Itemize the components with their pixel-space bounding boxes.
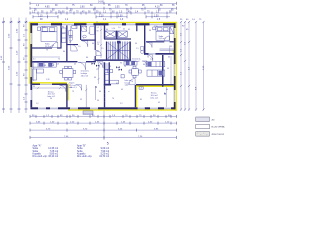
window: bottom wall w16 bbox=[164, 107, 171, 109]
svg-text:70: 70 bbox=[131, 81, 133, 83]
yellow wall highlight: left terrace top bbox=[31, 82, 67, 83]
window: right wall w10 bbox=[174, 28, 176, 38]
svg-text:90: 90 bbox=[70, 87, 72, 89]
bath1 fixtures (sink+toilet) bbox=[69, 31, 73, 42]
svg-text:k: k bbox=[83, 38, 84, 40]
svg-text:75: 75 bbox=[97, 44, 99, 46]
svg-text:75: 75 bbox=[95, 87, 97, 89]
door arc bath1 bbox=[71, 45, 78, 52]
window: left wall w7 bbox=[30, 33, 32, 44]
svg-text:90: 90 bbox=[149, 30, 151, 32]
scattered small annotations bbox=[33, 26, 172, 105]
wardrobe TR room bbox=[170, 27, 174, 34]
svg-text:1,10: 1,10 bbox=[99, 15, 104, 17]
interior wall: right terrace left (v8) bbox=[135, 85, 136, 107]
svg-text:45: 45 bbox=[74, 64, 76, 66]
interior wall: closet divider stub bbox=[116, 31, 118, 39]
interior wall: h4 TL bedroom bottom bbox=[30, 47, 52, 48]
window: right wall w12 bbox=[174, 90, 176, 102]
left dimension numbers bbox=[1, 24, 26, 100]
interior wall: left terrace top (h8) bbox=[30, 84, 67, 86]
svg-text:60: 60 bbox=[106, 29, 108, 31]
window: top wall w6 bbox=[150, 23, 164, 25]
svg-text:45: 45 bbox=[123, 29, 125, 31]
interior wall: bath divider (v3) bbox=[80, 25, 81, 40]
interior wall: h3 bath small bbox=[66, 44, 78, 45]
svg-text:Kupatilo: Kupatilo bbox=[33, 152, 42, 155]
porch door arc 1 bbox=[76, 85, 82, 91]
yellow wall highlight: right terrace left side bbox=[136, 87, 137, 109]
sofa left apt bbox=[33, 69, 44, 80]
bath2 fixtures (tub+shower) bbox=[82, 26, 95, 38]
yellow wall highlight: top bbox=[29, 22, 177, 24]
svg-text:80: 80 bbox=[63, 51, 65, 53]
svg-text:75: 75 bbox=[109, 66, 111, 68]
door arc left terrace bbox=[60, 85, 67, 92]
svg-text:3,1: 3,1 bbox=[33, 59, 36, 61]
svg-text:1,8: 1,8 bbox=[62, 33, 65, 35]
right dimension ticks bbox=[180, 21, 205, 111]
svg-text:60: 60 bbox=[143, 64, 145, 66]
bottom dimension ticks bbox=[30, 115, 176, 139]
svg-text:1,40: 1,40 bbox=[125, 85, 129, 87]
svg-text:3,60: 3,60 bbox=[80, 7, 85, 9]
window: top wall w1 bbox=[38, 23, 51, 25]
svg-text:1,50: 1,50 bbox=[154, 15, 159, 17]
left dimension ticks bbox=[2, 21, 28, 109]
svg-text:75: 75 bbox=[75, 27, 77, 29]
yellow wall highlight: right bbox=[175, 22, 176, 111]
entry steps below porch bbox=[83, 111, 93, 114]
interior dim line bath vertical bbox=[31, 21, 171, 89]
section marks right (bowties) bbox=[116, 66, 122, 71]
svg-text:k: k bbox=[164, 93, 165, 95]
outer wall: right bbox=[174, 23, 176, 109]
AC unit right terrace bbox=[139, 87, 143, 90]
interior wall: TL bedroom right (v1) bbox=[60, 25, 61, 47]
svg-text:Dnv.+kuh.+trp.: Dnv.+kuh.+trp. bbox=[77, 155, 92, 158]
interior wall: corridor stub x136 bbox=[136, 25, 137, 31]
svg-text:Apar "B": Apar "B" bbox=[77, 145, 86, 148]
window: top wall w4 bbox=[109, 23, 123, 25]
top dimension lines bbox=[30, 3, 176, 16]
door arc TR bedroom bbox=[164, 36, 169, 41]
svg-text:2,05: 2,05 bbox=[42, 27, 46, 29]
wardrobe closet X boxes bbox=[105, 31, 127, 37]
dim square mark right terrace bbox=[164, 93, 166, 94]
door arc left living bbox=[78, 62, 86, 70]
interior wall: h6a stair bottom bbox=[96, 59, 131, 61]
room label left terrace bbox=[48, 91, 57, 98]
interior wall: h6b right corridor south bbox=[144, 53, 176, 55]
svg-text:60: 60 bbox=[97, 51, 99, 53]
yellow wall highlight: left bbox=[29, 22, 30, 84]
door: bottom wall right terrace bbox=[138, 107, 145, 109]
svg-text:4,10: 4,10 bbox=[155, 7, 160, 9]
svg-text:36,10 m2: 36,10 m2 bbox=[48, 156, 58, 158]
interior wall: h7 left living north bbox=[32, 61, 77, 62]
left dimension lines bbox=[4, 18, 27, 114]
bottom dimension numbers bbox=[32, 115, 171, 138]
door arc right terrace bbox=[129, 79, 135, 85]
svg-text:75: 75 bbox=[88, 33, 90, 35]
interior wall: corridor right apt (v9) bbox=[144, 25, 145, 54]
svg-text:60: 60 bbox=[166, 89, 168, 91]
stair direction arrow diagonal bbox=[108, 43, 129, 59]
right dimension numbers bbox=[181, 32, 206, 90]
svg-text:55: 55 bbox=[167, 68, 169, 70]
outer wall: bottom bbox=[30, 107, 175, 109]
svg-text:60: 60 bbox=[168, 57, 170, 59]
svg-text:90: 90 bbox=[50, 98, 52, 100]
dining table right apt bbox=[129, 66, 141, 78]
svg-text:75: 75 bbox=[147, 57, 149, 59]
svg-text:75: 75 bbox=[124, 66, 126, 68]
window: left wall w9 bbox=[30, 90, 32, 100]
svg-text:3,55: 3,55 bbox=[115, 7, 120, 9]
svg-text:85: 85 bbox=[100, 64, 102, 66]
svg-text:75: 75 bbox=[46, 50, 48, 52]
svg-text:1,10: 1,10 bbox=[112, 28, 116, 30]
door: bottom wall porch d2 bbox=[90, 107, 98, 109]
svg-text:60: 60 bbox=[44, 65, 46, 67]
svg-text:kuh: kuh bbox=[56, 64, 59, 66]
svg-text:2,1: 2,1 bbox=[101, 48, 104, 50]
svg-text:45: 45 bbox=[158, 102, 160, 104]
svg-text:ZIDNI TOKOVI: ZIDNI TOKOVI bbox=[212, 134, 225, 136]
svg-text:kota -0,1: kota -0,1 bbox=[151, 97, 160, 100]
svg-text:34,70 m2: 34,70 m2 bbox=[99, 156, 109, 158]
top dimension numbers bbox=[32, 2, 175, 21]
lower stair treads bbox=[105, 64, 108, 70]
bed TR bbox=[153, 27, 170, 40]
bottom dimension lines bbox=[30, 110, 176, 140]
svg-text:90: 90 bbox=[97, 31, 99, 33]
interior dim line right room bbox=[166, 46, 170, 108]
door arc right corridor bbox=[147, 55, 153, 61]
svg-text:60: 60 bbox=[94, 77, 96, 79]
bed TL bbox=[37, 26, 77, 43]
interior wall: h1 under closets bbox=[104, 38, 131, 39]
room label right terrace bbox=[151, 93, 160, 100]
door arc bath2 bbox=[82, 41, 88, 47]
bottom area summary table 1 bbox=[33, 145, 59, 158]
stairwell wall hatch bbox=[104, 85, 105, 102]
right dimension lines bbox=[181, 22, 204, 111]
svg-text:90: 90 bbox=[62, 27, 64, 29]
bath3 right apt fixtures bbox=[141, 47, 174, 54]
interior wall: v5 upper closet room left bbox=[104, 25, 105, 39]
kitchen counters right apt bbox=[146, 62, 165, 77]
window: left wall w8 bbox=[30, 67, 32, 77]
svg-text:11,9 m2: 11,9 m2 bbox=[159, 38, 167, 40]
yellow wall highlight: left terrace right side bbox=[68, 84, 69, 101]
room label porch bbox=[69, 82, 78, 89]
room label TL bedroom bbox=[45, 44, 53, 48]
interior wall: h2 TR bedroom bottom bbox=[146, 41, 164, 42]
window: top wall w2 bbox=[62, 23, 74, 25]
yellow wall highlight: right terrace top bbox=[136, 86, 176, 87]
svg-text:1,50: 1,50 bbox=[154, 26, 158, 28]
stair label blob bbox=[117, 41, 120, 44]
door arc corridor left bbox=[96, 50, 101, 55]
svg-text:4,85: 4,85 bbox=[45, 7, 50, 9]
svg-text:wc: wc bbox=[69, 42, 71, 44]
interior wall: right terrace top (h9) bbox=[136, 84, 174, 86]
svg-text:55: 55 bbox=[170, 46, 172, 48]
svg-text:80: 80 bbox=[99, 91, 101, 93]
yellow patch right wall jog bbox=[173, 50, 175, 53]
svg-text:Apar "A": Apar "A" bbox=[33, 145, 42, 148]
door: bottom wall porch d1 bbox=[70, 107, 78, 109]
interior wall: stairwell left lower (v5) bbox=[104, 62, 105, 107]
door arc TL bedroom bbox=[52, 42, 58, 48]
svg-text:75: 75 bbox=[72, 91, 74, 93]
right dims top labels bbox=[180, 19, 202, 31]
svg-text:1,1: 1,1 bbox=[136, 48, 139, 50]
kitchen counter left apt bbox=[32, 63, 56, 68]
outer wall: top bbox=[30, 23, 175, 25]
svg-text:1,15: 1,15 bbox=[38, 15, 43, 17]
legend box 2: brick wall bbox=[196, 124, 225, 129]
door arc corridor right apt bbox=[142, 61, 147, 66]
svg-text:Kupatilo: Kupatilo bbox=[77, 152, 86, 155]
svg-text:24,2 m2: 24,2 m2 bbox=[132, 61, 140, 63]
window: top wall w5 bbox=[126, 23, 136, 25]
svg-text:85: 85 bbox=[116, 83, 118, 85]
svg-text:35: 35 bbox=[33, 86, 35, 88]
svg-text:1,9: 1,9 bbox=[78, 46, 81, 48]
svg-text:1,2: 1,2 bbox=[97, 42, 100, 44]
svg-text:75: 75 bbox=[58, 59, 60, 61]
kitchen counter along stair wall right apt bbox=[124, 61, 137, 65]
svg-text:Dnv.+kuh.+trp.: Dnv.+kuh.+trp. bbox=[33, 155, 48, 158]
svg-text:1,00: 1,00 bbox=[118, 15, 123, 17]
window: right wall w11 bbox=[174, 64, 176, 76]
section marks left (bowties) bbox=[92, 63, 100, 67]
svg-text:5: 5 bbox=[107, 142, 109, 146]
svg-text:1,40: 1,40 bbox=[139, 88, 143, 90]
svg-text:1,0: 1,0 bbox=[118, 27, 121, 29]
svg-text:14,60: 14,60 bbox=[98, 2, 104, 4]
window: top wall w3 bbox=[87, 23, 94, 25]
svg-text:1,2: 1,2 bbox=[36, 103, 39, 105]
dining table left apt bbox=[60, 66, 76, 80]
svg-text:85: 85 bbox=[140, 99, 142, 101]
interior wall: stair left (upper flight) bbox=[106, 42, 107, 60]
svg-text:90: 90 bbox=[135, 43, 137, 45]
svg-text:45: 45 bbox=[128, 29, 130, 31]
bottom area summary table 2 bbox=[77, 145, 110, 158]
door arc TR bedroom entry bbox=[147, 42, 152, 47]
room label left living bbox=[81, 71, 90, 78]
porch divider line bbox=[85, 85, 95, 108]
interior wall: v4 bbox=[95, 25, 96, 50]
top dimension ticks bbox=[30, 2, 176, 19]
svg-text:BL.ZID OPEKA: BL.ZID OPEKA bbox=[212, 126, 226, 129]
outer wall: left bbox=[30, 23, 32, 107]
svg-text:90: 90 bbox=[97, 100, 99, 102]
interior wall: v10 bbox=[162, 55, 164, 87]
svg-text:70: 70 bbox=[112, 98, 114, 100]
svg-text:45: 45 bbox=[85, 27, 87, 29]
svg-text:80: 80 bbox=[86, 57, 88, 59]
window: bottom wall w13 bbox=[38, 107, 46, 109]
svg-text:1,2: 1,2 bbox=[96, 69, 99, 71]
svg-text:1,35: 1,35 bbox=[46, 79, 50, 81]
legend box 1: wall bbox=[196, 117, 215, 122]
svg-text:1,1: 1,1 bbox=[97, 27, 100, 29]
legend box 3: partitions bbox=[196, 132, 225, 137]
svg-text:55: 55 bbox=[93, 59, 95, 61]
room label TR bedroom bbox=[159, 36, 167, 40]
sofa right apt L-shape bbox=[105, 69, 125, 84]
svg-text:45: 45 bbox=[121, 89, 123, 91]
svg-text:55: 55 bbox=[80, 99, 82, 101]
window: bottom wall w15 bbox=[150, 107, 158, 109]
svg-text:60: 60 bbox=[92, 43, 94, 45]
svg-text:90: 90 bbox=[52, 45, 54, 47]
yellow wall highlight: bottom bbox=[68, 109, 177, 110]
svg-text:2,2: 2,2 bbox=[120, 103, 123, 105]
interior wall: terrace right (v2 lower) bbox=[66, 84, 67, 107]
svg-text:26,5 m2: 26,5 m2 bbox=[81, 76, 89, 78]
svg-text:90: 90 bbox=[120, 63, 122, 65]
interior wall: stair right (v7) bbox=[129, 42, 131, 60]
door arc stairwell bbox=[97, 62, 103, 68]
room label right living bbox=[132, 59, 141, 64]
interior wall: h5 bath2 bottom bbox=[81, 40, 96, 41]
interior wall: lower stair right (v6) bbox=[109, 62, 110, 85]
window: bottom wall w14 bbox=[50, 107, 58, 109]
svg-text:2,4: 2,4 bbox=[150, 59, 153, 61]
stair upper flight treads bbox=[107, 42, 129, 60]
interior wall: hall left (v2 upper) bbox=[66, 25, 67, 61]
